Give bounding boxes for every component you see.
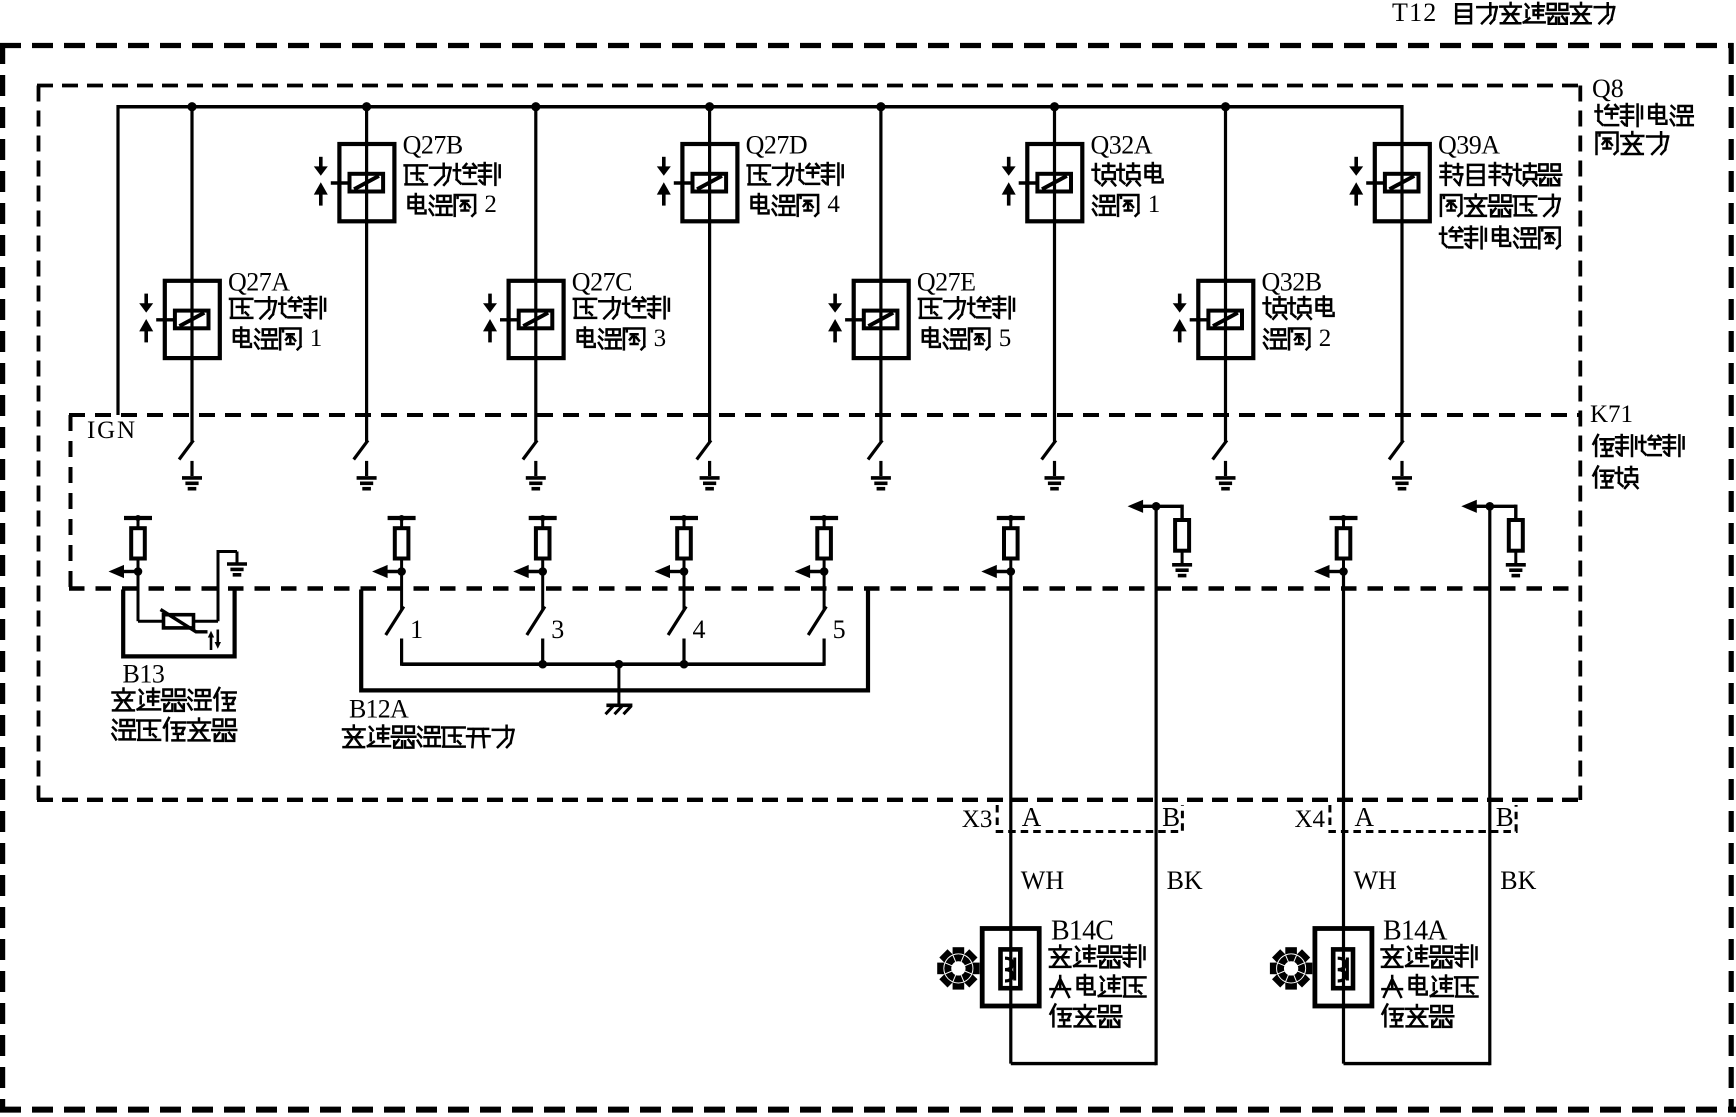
chassis ground symbol [606,703,632,707]
gear icon [937,947,979,989]
solenoid Q27E valve symbol [833,294,837,304]
solenoid Q27D left stub [674,181,693,184]
BK branch to bias resistor [1155,505,1182,508]
node dot [397,567,406,576]
bias resistor [1175,520,1189,551]
svg-text:Q39A: Q39A [1438,131,1500,160]
wire resistor to node [541,559,544,572]
signal arrow (to ADC) [1314,565,1330,578]
svg-text:Q27E: Q27E [917,268,976,297]
solenoid Q27C valve symbol [488,294,492,304]
signal arrow (to ADC) [513,565,529,578]
solenoid Q27A left stub [156,318,175,321]
B12A housing open-box [361,590,868,691]
solenoid Q27C outer box [509,281,564,358]
pull-up resistor at x=1344 [1337,528,1351,558]
svg-text:IGN: IGN [87,417,137,444]
solenoid Q39A left stub [1366,181,1385,184]
pull-up resistor at x=138 [131,528,145,558]
svg-text:4: 4 [827,191,840,218]
svg-text:A: A [1022,802,1042,832]
B13 housing open-box [123,590,234,657]
solenoid Q27D outer box [682,144,737,221]
solenoid Q27D valve symbol [662,157,666,167]
TCM driver switch blade at x=367 [354,440,368,459]
wire resistor to node [1009,559,1012,572]
bus junction node (Q27A) [187,102,196,111]
svg-text:Q32A: Q32A [1091,131,1153,160]
TCM driver switch lower stub [1053,461,1056,476]
TCM driver switch blade at x=1226 [1213,440,1227,459]
solenoid Q32A outer box [1027,144,1082,221]
B12A common bus [402,662,824,666]
svg-text:BK: BK [1167,866,1203,895]
svg-text:B: B [1162,802,1180,832]
solenoid Q39A outer box [1375,144,1430,221]
B12A switch 5 lower stub [822,639,825,666]
B12A switch 4 lower stub [682,639,685,666]
svg-text:5: 5 [833,615,846,644]
solenoid Q27E coil element [864,311,898,329]
connector X3 dashed box [997,805,1182,832]
solenoid Q27E outer box [854,281,909,358]
svg-text:4: 4 [693,615,706,644]
svg-text:5: 5 [999,325,1012,352]
svg-text:Q27C: Q27C [572,268,632,297]
internal supply T-bar at x=684 [670,516,698,520]
IGN supply bus wire [118,105,1402,109]
wire resistor to ground [1514,551,1517,564]
svg-text:K71: K71 [1590,401,1633,428]
wire to thermistor left [138,620,164,623]
variability arrows [210,636,213,650]
B12A switch 5 wire from node [823,572,826,611]
node dot [1007,567,1016,576]
solenoid Q27B coil element [350,174,384,192]
wire resistor to node [137,559,140,572]
internal supply T-bar at x=1011 [997,516,1025,520]
solenoid Q27A outer box [165,281,220,358]
B12A switch 3 lower stub [541,639,544,666]
TCM driver switch lower stub [1400,461,1403,476]
solenoid Q27B coil slash [354,176,379,189]
IGN feed wire (left drop) [116,105,119,415]
solenoid Q27A coil slash [180,313,205,326]
internal supply T-bar at x=543 [529,516,557,520]
wire thermistor right [194,620,219,623]
svg-text:X4: X4 [1295,806,1326,833]
pull-up resistor at x=1011 [1004,528,1018,558]
ground (B13 return) [227,562,247,566]
wire resistor to node [823,559,826,572]
svg-text:WH: WH [1021,866,1065,895]
solenoid Q27D coil element [693,174,727,192]
solenoid Q32B coil element [1208,311,1242,329]
signal arrow (to ADC) [795,565,811,578]
sensor B14A body box [1315,929,1372,1007]
B12A switch 1 lower stub [400,639,403,666]
gear icon [1270,947,1312,989]
TCM driver switch blade at x=881 [868,440,882,459]
sensor loop bottom wire [1344,1062,1490,1065]
svg-text:Q27A: Q27A [228,268,290,297]
svg-text:2: 2 [484,191,497,218]
TCM driver switch lower stub [879,461,882,476]
wire B13 return up [217,552,220,622]
ground (driver at x=881) [871,476,891,480]
solenoid Q32A valve symbol [1007,157,1011,167]
svg-text:Q32B: Q32B [1262,268,1322,297]
wire bus to Q39A driver [1400,105,1403,442]
BK node dot at x=1156 [1152,502,1161,511]
wire resistor to node [1342,559,1345,572]
pull-up resistor at x=543 [536,528,550,558]
BK signal arrow [1128,500,1144,513]
bias resistor [1509,520,1523,551]
ground (driver at x=367) [357,476,377,480]
TCM driver switch blade at x=192 [179,440,193,459]
B12A switch 1 wire from node [400,572,403,611]
solenoid Q27A valve symbol [144,294,148,304]
svg-text:A: A [1355,802,1375,832]
svg-text:B12A: B12A [349,695,409,724]
solenoid Q27D coil slash [697,176,722,189]
svg-text:2: 2 [1319,325,1332,352]
bus junction node (Q32A) [1050,102,1059,111]
TCM driver switch lower stub [1224,461,1227,476]
pull-up resistor at x=684 [677,528,691,558]
TCM driver switch blade at x=710 [697,440,711,459]
svg-text:3: 3 [654,325,667,352]
B12A switch 3 blade [527,607,545,636]
K71 TCM dashed box bottom edge [69,586,1580,591]
bus junction node (Q32B) [1221,102,1230,111]
internal supply T-bar at x=1344 [1330,516,1358,520]
solenoid Q32A coil element [1037,174,1071,192]
ground (driver at x=1402) [1392,476,1412,480]
wire WH (B14A) down [1342,572,1345,1064]
B12A switch 1 blade [386,607,404,636]
internal supply T-bar at x=138 [124,516,152,520]
node dot [1339,567,1348,576]
B12A switch 3 wire from node [541,572,544,611]
wire resistor to node [683,559,686,572]
wire BK (B14C) down [1154,506,1157,1065]
sensor B14C pickup element [1001,949,1021,988]
sensor B14A pickup element [1333,949,1353,988]
TCM driver switch blade at x=1402 [1389,440,1403,459]
wire resistor to node [400,559,403,572]
solenoid Q27B valve symbol [319,157,323,167]
solenoid Q32B valve symbol [1178,294,1182,304]
bus junction dots [538,660,547,669]
svg-text:Q27D: Q27D [746,131,808,160]
svg-text:B: B [1496,802,1514,832]
wire WH (B14C) down [1009,572,1012,1064]
TCM driver switch lower stub [708,461,711,476]
ground (driver at x=1054) [1045,476,1065,480]
svg-text:3: 3 [551,615,564,644]
BK signal arrow [1461,500,1477,513]
wire bus to Q32B driver [1224,105,1227,442]
svg-text:BK: BK [1500,866,1536,895]
TCM driver switch lower stub [534,461,537,476]
wire return to ground stub [217,550,238,553]
svg-text:WH: WH [1354,866,1398,895]
svg-text:B13: B13 [123,660,165,689]
TCM driver switch lower stub [365,461,368,476]
internal supply T-bar at x=402 [388,516,416,520]
wire B13 signal down [137,572,140,622]
solenoid Q27C left stub [500,318,519,321]
solenoid Q27C coil element [519,311,553,329]
solenoid Q32B outer box [1198,281,1253,358]
bus junction node (Q27E) [876,102,885,111]
solenoid Q39A valve symbol [1354,157,1358,167]
TCM driver switch blade at x=1054 [1042,440,1056,459]
TCM driver switch blade at x=536 [523,440,537,459]
wire bus to Q27B driver [365,105,368,442]
B12A switch 4 wire from node [683,572,686,611]
svg-text:1: 1 [410,615,423,644]
wire bus to Q27E driver [879,105,882,442]
signal arrow (to ADC) [981,565,997,578]
svg-text:B14C: B14C [1051,916,1113,947]
solenoid Q27A coil element [175,311,209,329]
solenoid Q27E coil slash [868,313,893,326]
svg-text:X3: X3 [962,806,993,833]
solenoid Q32B coil slash [1213,313,1238,326]
K71 TCM dashed box left edge [69,415,73,589]
svg-text:1: 1 [310,325,323,352]
pickup glyph [1005,958,1013,981]
pull-up resistor at x=402 [395,528,409,558]
BK branch to bias resistor [1489,505,1516,508]
wire bus to Q27C driver [534,105,537,442]
bus junction node (Q27C) [531,102,540,111]
solenoid Q27B outer box [339,144,394,221]
bus junction node (Q27B) [362,102,371,111]
K71 TCM dashed box top edge [69,413,1580,417]
wire bus to Q27D driver [708,105,711,442]
ground (driver at x=1226) [1216,476,1236,480]
B12A switch 4 blade [668,607,686,636]
B12A ground tap [617,664,620,704]
wire bus to Q27A driver [190,105,193,442]
node dot [134,567,143,576]
svg-text:1: 1 [1148,191,1161,218]
ground (driver at x=192) [182,476,202,480]
solenoid Q32A coil slash [1042,176,1067,189]
solenoid Q39A coil element [1385,174,1419,192]
BK node dot at x=1490 [1486,502,1495,511]
pickup glyph [1338,958,1346,981]
sensor loop bottom wire [1011,1062,1156,1065]
solenoid Q32B left stub [1190,318,1209,321]
ground (BK channel) [1506,563,1526,567]
wire bus to Q32A driver [1053,105,1056,442]
wire BK (B14A) down [1488,506,1491,1065]
solenoid Q27C coil slash [523,313,548,326]
pull-up resistor at x=824 [817,528,831,558]
svg-text:T12: T12 [1392,0,1437,27]
svg-text:Q27B: Q27B [403,131,463,160]
svg-text:Q8: Q8 [1592,74,1624,103]
signal arrow (to ADC) [655,565,671,578]
internal supply T-bar at x=824 [810,516,838,520]
ground (driver at x=536) [526,476,546,480]
sensor B14C body box [982,929,1039,1007]
thermistor B13 body [164,615,194,628]
ground (driver at x=710) [700,476,720,480]
signal arrow (to ADC) [372,565,388,578]
solenoid Q27E left stub [845,318,864,321]
node dot [538,567,547,576]
Q8 solenoid assembly dashed box [37,84,1582,88]
connector X4 dashed box [1330,805,1516,832]
ground (BK channel) [1172,563,1192,567]
svg-text:B14A: B14A [1383,916,1448,947]
wire resistor to ground [1181,551,1184,564]
signal arrow (to ADC) [109,565,125,578]
solenoid Q39A coil slash [1390,176,1415,189]
node dot [680,567,689,576]
TCM driver switch lower stub [190,461,193,476]
T12 transmission assembly outer dashed box [0,43,1734,48]
thermistor slash [161,610,208,632]
B12A switch 5 blade [808,607,826,636]
node dot [820,567,829,576]
solenoid Q27B left stub [331,181,350,184]
solenoid Q32A left stub [1019,181,1038,184]
bus junction node (Q27D) [705,102,714,111]
